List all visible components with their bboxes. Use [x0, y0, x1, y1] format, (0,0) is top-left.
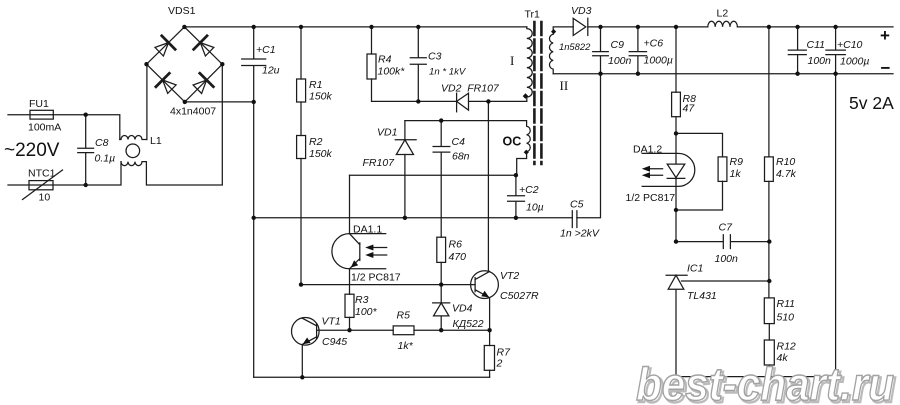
choke L1 bottom winding — [121, 162, 146, 166]
wire bridge bottom to C1 — [185, 101, 254, 103]
svg-text:5v 2A: 5v 2A — [849, 93, 894, 113]
svg-text:R4: R4 — [378, 54, 392, 66]
resistor R7 — [484, 346, 494, 371]
svg-text:−: − — [881, 59, 891, 78]
wire R1 to R2 — [300, 102, 302, 136]
svg-text:R5: R5 — [397, 310, 411, 322]
wire DA1.1 collector riser — [349, 175, 351, 233]
wire feedback return line — [350, 174, 516, 176]
svg-text:FR107: FR107 — [363, 157, 396, 169]
bridge diode D3 cathode bar — [156, 73, 169, 87]
svg-text:КД522: КД522 — [453, 318, 484, 330]
svg-text:C3: C3 — [428, 51, 442, 63]
svg-text:100k*: 100k* — [378, 66, 406, 78]
wire VT2 collector riser — [487, 101, 489, 271]
choke L1 core circle — [126, 144, 140, 158]
resistor R11 — [764, 298, 774, 324]
wire primary top rail — [184, 26, 526, 28]
wire choke top to bridge left node — [146, 64, 148, 139]
wire DA1.1 emitter to R3 — [349, 269, 351, 294]
svg-text:1n >2kV: 1n >2kV — [560, 228, 600, 240]
resistor R12 — [764, 340, 774, 365]
svg-text:1/2 PC817: 1/2 PC817 — [626, 192, 676, 204]
svg-text:NTC1: NTC1 — [28, 168, 56, 180]
svg-text:R3: R3 — [355, 294, 369, 306]
wire minus rail to secondary bottom rail — [835, 74, 837, 377]
resistor R2 — [297, 136, 306, 159]
svg-text:VT1: VT1 — [322, 316, 341, 328]
svg-text:R6: R6 — [449, 239, 463, 251]
svg-text:OC: OC — [503, 135, 522, 149]
wire negative line y218 — [254, 217, 573, 219]
resistor R8 — [675, 27, 677, 92]
svg-text:+C2: +C2 — [519, 184, 539, 196]
optocoupler DA1.1 body — [332, 234, 386, 269]
resistor R6 — [437, 237, 446, 262]
capacitor C1 — [242, 27, 266, 102]
resistor R10 — [768, 27, 770, 157]
svg-text:~220V: ~220V — [4, 140, 60, 161]
wire R12 to bottom rail — [768, 365, 770, 377]
wire R3 to sense line — [349, 317, 351, 330]
watermark best-chart.ru — [636, 358, 896, 405]
wire R8 to LED node — [675, 117, 677, 134]
svg-text:C9: C9 — [611, 39, 625, 51]
capacitor C2 — [508, 175, 525, 218]
svg-text:R9: R9 — [730, 156, 744, 168]
bridge VDS1 diamond edges — [147, 27, 223, 102]
wire VD1 leads — [404, 121, 406, 218]
wire R6 to base line — [440, 262, 442, 284]
svg-text:0.1µ: 0.1µ — [95, 153, 116, 165]
choke L1 top winding — [120, 136, 147, 140]
svg-text:VD3: VD3 — [571, 5, 592, 17]
svg-text:12u: 12u — [262, 65, 280, 77]
wire sense line VT1 base to VT2 emitter — [317, 329, 490, 331]
wire primary bottom rail — [254, 376, 490, 378]
wire VT2 base line — [301, 284, 475, 286]
svg-text:C11: C11 — [807, 39, 825, 51]
svg-text:VD4: VD4 — [452, 303, 473, 315]
optocoupler DA1.1 light arrows — [372, 248, 387, 256]
svg-text:R11: R11 — [777, 298, 795, 310]
resistor R3 — [345, 294, 354, 317]
capacitor C11 — [788, 27, 806, 74]
svg-text:10µ: 10µ — [526, 202, 544, 214]
svg-text:2: 2 — [496, 358, 503, 370]
svg-text:R12: R12 — [777, 341, 796, 353]
thermistor NTC1 slash — [23, 170, 63, 200]
svg-text:L1: L1 — [150, 135, 162, 147]
svg-text:1n5822: 1n5822 — [559, 41, 591, 52]
svg-text:1k*: 1k* — [398, 340, 414, 352]
transformer Tr1 core dashed lines — [534, 22, 541, 164]
transformer Tr1 secondary phase dot — [551, 29, 556, 34]
svg-text:150k: 150k — [309, 148, 333, 160]
inductor L2 — [708, 21, 738, 27]
capacitor C10 — [826, 27, 845, 74]
wire AC top input — [8, 115, 120, 140]
wire R7 to bottom rail — [489, 370, 491, 377]
capacitor C5 — [572, 211, 577, 228]
svg-text:VT2: VT2 — [500, 270, 519, 282]
transistor VT2 emitter arrow — [481, 291, 489, 298]
svg-text:R1: R1 — [309, 79, 322, 91]
bridge diode D3 bottom-left triangle — [163, 80, 177, 93]
svg-text:1n * 1kV: 1n * 1kV — [429, 67, 467, 78]
wire primary left ground rail — [253, 102, 255, 377]
svg-text:C8: C8 — [95, 137, 109, 149]
wire R4 bottom to clamp line — [372, 79, 419, 101]
svg-text:68n: 68n — [452, 151, 470, 163]
resistor R4 — [371, 27, 373, 54]
wire choke bottom to bridge right node — [146, 64, 222, 185]
transformer Tr1 OC phase dot — [524, 150, 529, 155]
svg-text:I: I — [510, 53, 514, 68]
svg-text:510: 510 — [777, 312, 795, 324]
wire R9 return — [676, 181, 723, 210]
capacitor C8 — [78, 115, 94, 185]
svg-text:470: 470 — [449, 251, 467, 263]
wire R2 down to VT1 collector node — [300, 159, 302, 285]
svg-text:100*: 100* — [355, 306, 378, 318]
capacitor C3 — [410, 27, 426, 102]
capacitor C9 — [593, 27, 609, 74]
svg-text:C7: C7 — [719, 222, 734, 234]
diode VD1 triangle — [396, 140, 413, 155]
svg-text:100n: 100n — [808, 55, 832, 67]
svg-text:VD1: VD1 — [377, 127, 397, 139]
resistor R1 — [300, 27, 302, 79]
capacitor C4 — [433, 121, 450, 238]
svg-text:1000µ: 1000µ — [644, 55, 673, 67]
svg-text:Tr1: Tr1 — [525, 9, 541, 21]
capacitor C7 — [676, 235, 769, 249]
svg-text:FU1: FU1 — [29, 98, 49, 110]
bridge diode D1 cathode bar — [162, 36, 175, 50]
transistor VT1 symbol — [302, 318, 316, 344]
svg-text:C5: C5 — [570, 199, 584, 211]
optocoupler DA1.2 LED — [667, 133, 685, 241]
svg-text:100mA: 100mA — [28, 122, 61, 134]
svg-text:4x1n4007: 4x1n4007 — [170, 106, 216, 118]
diode VD2 triangle — [457, 93, 469, 110]
optocoupler DA1.2 light arrows — [648, 169, 663, 176]
wire AC bottom input — [8, 162, 121, 185]
wire R10 to divider — [768, 181, 770, 298]
svg-text:DA1.2: DA1.2 — [633, 144, 662, 156]
wire VT1 emitter to bottom rail — [301, 345, 303, 378]
svg-text:4.7k: 4.7k — [776, 168, 797, 180]
svg-text:VD2 FR107: VD2 FR107 — [441, 83, 500, 95]
svg-text:C945: C945 — [322, 336, 347, 348]
svg-text:+: + — [880, 26, 890, 45]
svg-text:+C10: +C10 — [837, 39, 863, 51]
svg-text:+C1: +C1 — [256, 44, 276, 56]
optocoupler DA1.1 transistor — [350, 234, 360, 269]
svg-text:VDS1: VDS1 — [168, 5, 196, 17]
svg-text:II: II — [560, 78, 569, 93]
bridge diode D4 cathode bar — [200, 73, 214, 86]
resistor R5 — [393, 326, 414, 335]
svg-text:best-chart.ru: best-chart.ru — [636, 358, 894, 405]
transformer Tr1 primary winding I — [527, 27, 532, 102]
bridge diode D4 bottom-right triangle — [193, 80, 207, 94]
svg-text:100n: 100n — [608, 55, 632, 67]
transformer Tr1 feedback winding OC — [405, 121, 530, 176]
shunt regulator IC1 TL431 — [666, 275, 687, 376]
wire clamp line to VD2 — [418, 100, 456, 102]
fuse FU1 — [30, 110, 53, 119]
wire VT2 emitter to R7 — [489, 298, 491, 346]
diode VD3 — [573, 18, 588, 35]
svg-text:IC1: IC1 — [687, 263, 703, 275]
wire R11 to R12 — [768, 324, 770, 340]
transistor VT1 circle — [292, 318, 320, 346]
diode VD4 — [433, 285, 450, 331]
wire secondary minus rail — [553, 73, 893, 75]
wire TL431 ref — [682, 280, 770, 282]
capacitor C6 — [629, 27, 646, 74]
svg-text:L2: L2 — [717, 8, 729, 20]
svg-text:DA1.1: DA1.1 — [353, 224, 382, 236]
diode VD1 cathode bar — [395, 139, 416, 141]
bridge diode D2 cathode bar — [194, 36, 207, 50]
svg-text:C5027R: C5027R — [500, 290, 539, 302]
wire R9 branch — [676, 133, 723, 157]
svg-text:+C6: +C6 — [644, 38, 664, 50]
optocoupler DA1.1 emitter arrow — [351, 260, 358, 267]
wire secondary plus rail — [588, 26, 893, 28]
svg-text:100n: 100n — [715, 253, 739, 265]
svg-text:R2: R2 — [309, 136, 323, 148]
transistor VT2 circle — [471, 271, 499, 299]
wire VD2 to primary bottom — [469, 100, 527, 102]
transformer Tr1 primary phase dot — [523, 93, 529, 99]
optocoupler DA1.2 body — [642, 153, 695, 186]
svg-text:TL431: TL431 — [687, 290, 717, 302]
svg-text:10: 10 — [39, 192, 51, 204]
diode VD2 cathode bar — [456, 93, 458, 112]
transistor VT2 symbol — [475, 271, 490, 297]
wire secondary bottom rail — [676, 376, 836, 378]
bridge diode D2 top-right triangle — [200, 43, 214, 56]
bridge diode D1 top-left triangle — [155, 43, 169, 56]
transformer Tr1 secondary winding II — [549, 27, 573, 74]
svg-text:1k: 1k — [730, 168, 742, 180]
thermistor NTC1 — [29, 181, 53, 190]
svg-text:1000µ: 1000µ — [840, 56, 869, 68]
svg-text:R10: R10 — [776, 156, 795, 168]
resistor R9 — [718, 157, 727, 182]
transistor VT1 emitter arrow — [303, 338, 311, 345]
svg-text:C4: C4 — [452, 136, 466, 148]
svg-text:47: 47 — [683, 103, 696, 115]
svg-text:150k: 150k — [309, 91, 333, 103]
svg-text:1/2 PC817: 1/2 PC817 — [351, 272, 401, 284]
wire C5 to secondary ground — [577, 74, 601, 218]
